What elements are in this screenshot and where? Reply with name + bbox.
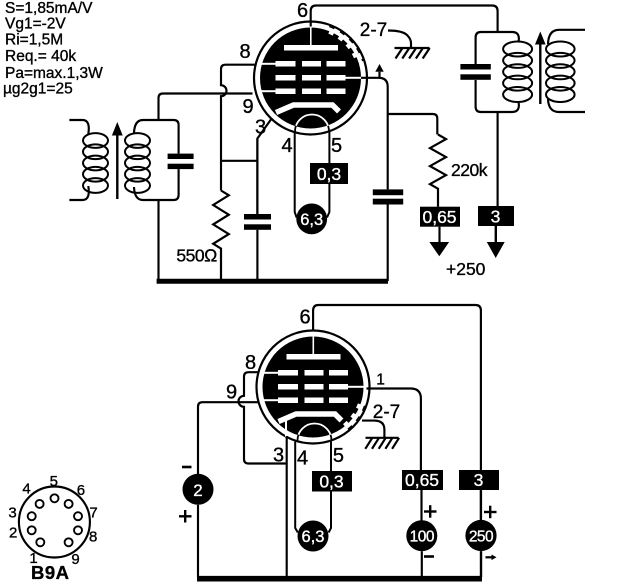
secondary lead top: [548, 30, 585, 44]
pentode V2: [257, 331, 370, 444]
wire: pin8 U-link to cathode: [239, 372, 287, 463]
svg-text:9: 9: [242, 96, 253, 118]
socket outline: [19, 487, 90, 558]
tuning arrow T1: [116, 134, 118, 199]
pin1 arrow marker: [375, 64, 383, 72]
output tank left side + cap: [476, 32, 519, 64]
svg-text:9: 9: [71, 551, 79, 568]
svg-text:550Ω: 550Ω: [176, 246, 217, 266]
wire: pin3 cathode down: [257, 118, 272, 214]
ground symbol (top): [395, 48, 430, 59]
svg-text:Req.= 40k: Req.= 40k: [5, 48, 76, 65]
wire: pin5 through 0,3 box (V2): [329, 442, 331, 533]
svg-text:250: 250: [469, 529, 494, 546]
wire: 2-7 to ground: [388, 31, 411, 48]
svg-text:2: 2: [193, 481, 202, 500]
svg-text:5: 5: [331, 135, 342, 157]
meter circle 6,3 (bottom): [298, 521, 329, 552]
wire: pin6 anode over to 3 box: [313, 305, 481, 470]
svg-text:B9A: B9A: [31, 562, 70, 583]
ground rail (bottom circuit): [197, 576, 482, 582]
socket pin 6: [65, 500, 73, 508]
svg-text:8: 8: [89, 529, 97, 546]
meter circle 2: [183, 474, 214, 505]
ground symbol (bottom): [365, 438, 399, 449]
wire: meter 100 to rail: [421, 551, 423, 577]
socket pin 7: [74, 512, 82, 520]
polarity minus (meter 100): [424, 555, 434, 558]
svg-text:Vg1=-2V: Vg1=-2V: [5, 16, 66, 33]
pentode V1: [254, 22, 367, 135]
socket labels: [8, 473, 97, 568]
svg-text:0,65: 0,65: [405, 470, 439, 490]
meter box 0,65 (top): [420, 207, 460, 227]
wire+arrow to +250 (left): [438, 227, 440, 243]
svg-text:4: 4: [22, 481, 30, 498]
secondary lead bottom: [548, 99, 585, 112]
meter box 3 (top): [478, 206, 514, 226]
bypass capacitor right: [373, 189, 403, 195]
svg-text:5: 5: [50, 473, 58, 490]
socket pin 1: [36, 538, 44, 546]
wire: pin8 to 550 ohm: [221, 65, 256, 191]
svg-text:100: 100: [410, 529, 435, 546]
polarity plus (meter 2): [179, 510, 192, 523]
svg-text:9: 9: [226, 382, 237, 404]
wire: meter 2 to rail: [197, 505, 199, 577]
wire: tank bottom to 3 box: [497, 112, 499, 206]
svg-text:6,3: 6,3: [300, 211, 323, 229]
svg-text:4: 4: [297, 448, 308, 470]
meter box 3 (bottom): [459, 470, 499, 490]
socket pin 4: [36, 500, 44, 508]
svg-text:7: 7: [89, 505, 97, 522]
svg-text:1: 1: [376, 372, 385, 389]
meter circle 250: [465, 520, 496, 551]
secondary coil T2: [546, 42, 575, 103]
wire: pin4 to heater meter: [295, 132, 297, 218]
wire: cap to rail: [387, 205, 389, 282]
svg-text:8: 8: [245, 352, 256, 374]
wire: pin9 (g1) to input tank: [159, 94, 253, 121]
svg-text:S=1,85mA/V: S=1,85mA/V: [5, 0, 93, 17]
svg-text:µg2g1=25: µg2g1=25: [3, 81, 73, 98]
wire: pin5 to heater meter: [327, 132, 329, 218]
primary lead bottom: [69, 186, 88, 200]
wire: pin9 to meter 2: [198, 402, 258, 474]
svg-text:0,65: 0,65: [422, 207, 456, 227]
V1 shield dashed arc (white notches on disc): [329, 32, 357, 60]
svg-text:Ri=1,5M: Ri=1,5M: [5, 32, 63, 49]
wire: pin4 to heater meter (V2): [295, 442, 298, 533]
socket pin 9: [65, 538, 73, 546]
wire: tank bottom to rail: [157, 200, 159, 281]
svg-text:6: 6: [77, 482, 85, 499]
wire: 0,65 box to meter 100: [420, 490, 422, 521]
primary coil: [83, 133, 108, 193]
wire: pin6 anode to output tank: [311, 6, 498, 33]
socket pin 5: [51, 494, 59, 502]
wire: pin1 to 0,65 box: [367, 389, 421, 471]
meter box 0,3 (bottom): [312, 471, 352, 492]
wire: junction to 220k: [388, 114, 438, 135]
socket pin 2: [28, 526, 36, 534]
svg-text:3: 3: [255, 117, 266, 139]
wire: meter 250 to rail: [480, 551, 482, 577]
V2 shield dashed arc (white notches on disc): [340, 404, 360, 429]
socket pin 3: [28, 512, 36, 520]
V2 shield dashed arc (black on ring): [343, 406, 365, 434]
V1 shield dashed arc (black on ring): [330, 26, 364, 61]
svg-text:3: 3: [273, 445, 284, 467]
meter circle 6,3 (top): [296, 204, 327, 235]
svg-text:6: 6: [297, 0, 308, 22]
svg-text:3: 3: [474, 470, 484, 490]
svg-text:2: 2: [9, 525, 17, 542]
input tank top wire: [134, 120, 179, 154]
meter circle 100: [406, 520, 437, 551]
resistor 550 ohm: [213, 191, 229, 282]
wire: pin3 cathode to rail: [286, 436, 288, 576]
capacitor output tank: [460, 64, 490, 70]
svg-text:6: 6: [299, 307, 310, 329]
svg-text:2-7: 2-7: [360, 20, 387, 41]
svg-text:220k: 220k: [451, 160, 488, 180]
polarity plus (meter 100): [424, 505, 437, 518]
polarity minus (meter 2): [182, 466, 192, 469]
meter box 0,3 (top): [310, 163, 348, 184]
svg-text:0,3: 0,3: [319, 472, 343, 492]
pin3 internal lead (white): [285, 421, 287, 437]
svg-text:8: 8: [239, 41, 250, 63]
meter box 0,65 (bottom): [402, 470, 443, 490]
input tank bottom wire: [134, 169, 179, 200]
wire: cathode junction to 550 ohm top: [221, 160, 257, 162]
ground rail (top circuit): [157, 279, 388, 284]
wire+arrow to +250 (right): [495, 226, 497, 243]
svg-text:3: 3: [8, 505, 16, 522]
svg-text:+250: +250: [446, 259, 486, 279]
socket pin 8: [74, 526, 82, 534]
wire: cap to ground rail: [256, 230, 258, 281]
resistor 220k: [430, 135, 446, 207]
polarity plus (meter 250): [484, 506, 497, 519]
primary lead top: [69, 120, 88, 134]
capacitor cathode bypass: [244, 214, 271, 220]
wire: pin1 (g2) to right: [361, 78, 388, 190]
wire: 3 box to meter 250: [480, 490, 482, 521]
svg-text:Pa=max.1,3W: Pa=max.1,3W: [5, 65, 103, 82]
svg-text:4: 4: [281, 135, 292, 157]
tuning arrow T2: [539, 43, 541, 104]
wire: 2-7 to ground (V2): [362, 421, 384, 437]
polarity arrow (meter 250): [486, 556, 493, 558]
capacitor input tank: [168, 154, 194, 159]
primary coil T2: [503, 42, 532, 103]
svg-text:3: 3: [491, 207, 501, 227]
svg-text:6,3: 6,3: [302, 528, 325, 546]
secondary coil: [125, 133, 150, 193]
spec text block: [3, 0, 103, 98]
svg-text:5: 5: [333, 445, 344, 467]
svg-text:0,3: 0,3: [317, 164, 341, 184]
